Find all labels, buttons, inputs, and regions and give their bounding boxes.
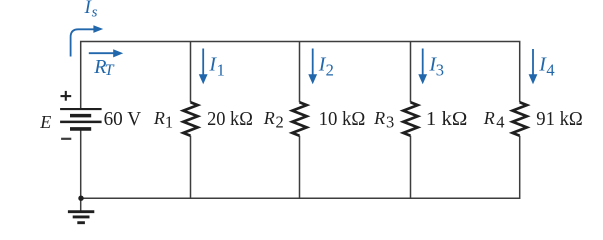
arrow I3: [418, 49, 427, 85]
ground: [68, 212, 94, 223]
svg-text:T: T: [105, 62, 115, 79]
wire branch R3 upper: [410, 42, 412, 103]
svg-text:1: 1: [217, 60, 225, 79]
svg-text:4: 4: [496, 113, 504, 132]
svg-text:1 kΩ: 1 kΩ: [426, 108, 468, 130]
svg-text:R: R: [263, 108, 275, 128]
svg-text:2: 2: [326, 60, 334, 79]
wire branch R2 upper: [299, 42, 301, 103]
battery E plates: [60, 109, 102, 129]
wire bottom horizontal: [81, 136, 520, 199]
svg-text:3: 3: [386, 113, 394, 132]
svg-text:R: R: [483, 108, 495, 128]
resistor R4 zigzag: [513, 102, 527, 135]
svg-text:10 kΩ: 10 kΩ: [319, 108, 366, 130]
arrow Is (source current): [71, 25, 104, 56]
arrow RT: [89, 49, 123, 57]
svg-text:s: s: [92, 4, 98, 20]
svg-text:20 kΩ: 20 kΩ: [207, 108, 253, 130]
battery plus sign: [61, 91, 72, 101]
svg-text:E: E: [39, 112, 51, 132]
wire branch R1 upper: [190, 42, 192, 103]
arrow I2: [308, 49, 317, 85]
svg-text:R: R: [153, 108, 165, 128]
svg-text:3: 3: [436, 60, 444, 79]
resistor R3 zigzag: [403, 102, 417, 135]
resistor R2 zigzag: [292, 102, 306, 135]
arrow I1: [199, 49, 208, 85]
svg-text:1: 1: [165, 113, 173, 132]
svg-text:2: 2: [276, 113, 284, 132]
wire branch R3 lower: [410, 136, 412, 199]
node junction dot at ground: [78, 196, 83, 201]
svg-text:91 kΩ: 91 kΩ: [536, 108, 583, 130]
svg-text:60 V: 60 V: [104, 108, 142, 130]
wire left lower (battery to ground): [80, 131, 82, 211]
battery minus sign: [61, 138, 71, 140]
wire top horizontal: [81, 42, 520, 109]
svg-text:4: 4: [546, 60, 554, 79]
wire branch R1 lower: [190, 136, 192, 199]
svg-text:R: R: [373, 108, 385, 128]
resistor R1 zigzag: [183, 102, 197, 135]
wire branch R2 lower: [299, 136, 301, 199]
arrow I4: [529, 49, 538, 84]
